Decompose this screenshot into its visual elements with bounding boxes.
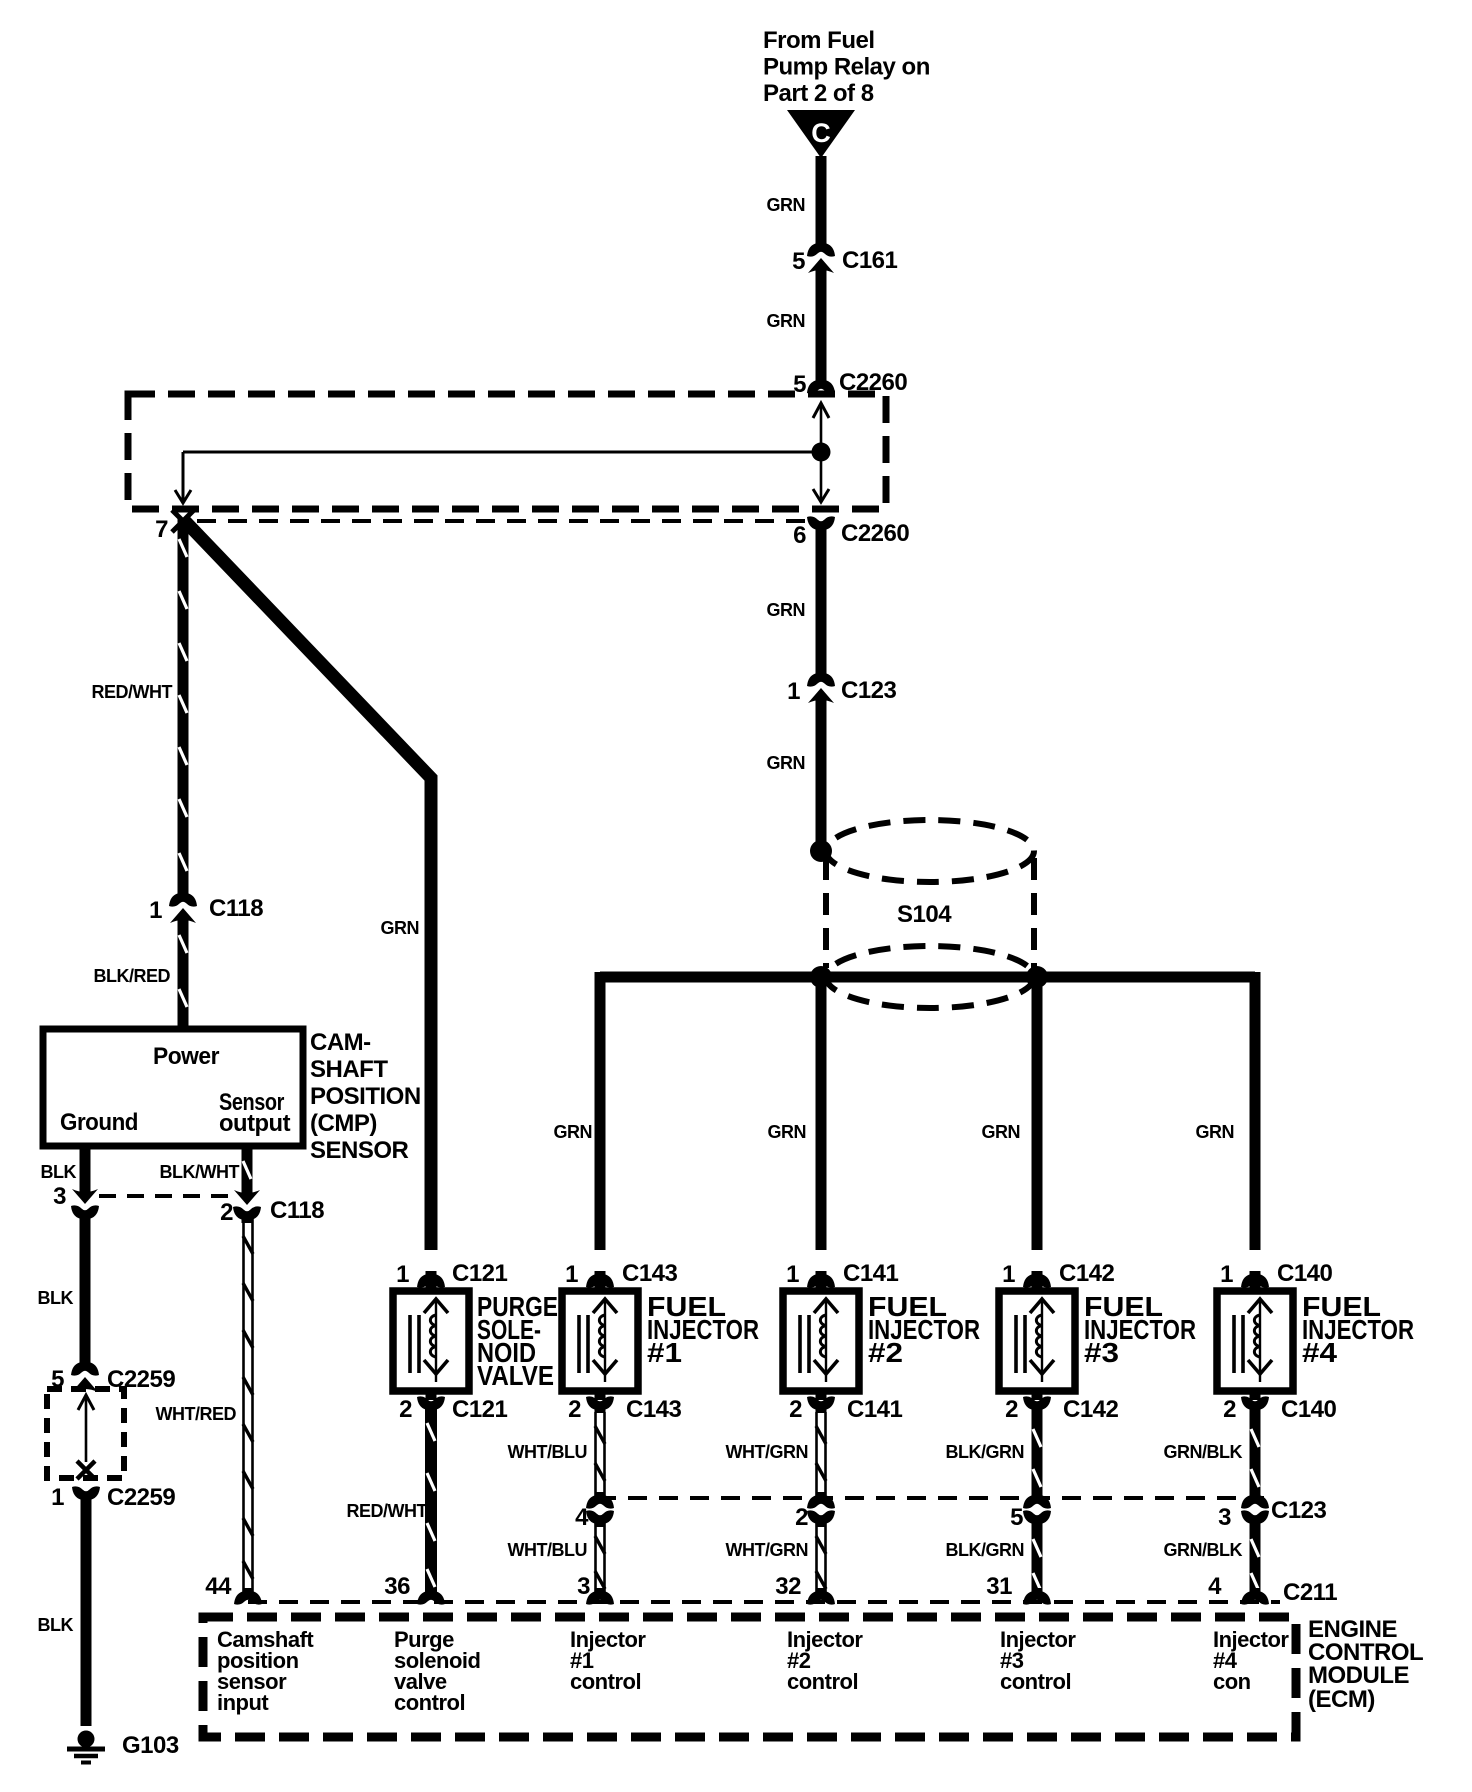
label GRN [767, 753, 806, 773]
svg-text:44: 44 [205, 1573, 232, 1600]
svg-text:5: 5 [793, 371, 806, 398]
wire GRN/BLK lower segment [1251, 1520, 1259, 1594]
svg-text:C143: C143 [626, 1396, 682, 1423]
wire GRN diagonal to purge solenoid [183, 519, 431, 1250]
connector C2260 pin 6 fishtail [807, 516, 835, 533]
label Injector #4 control [1213, 1627, 1289, 1694]
label GRN injector 2 [768, 1122, 807, 1142]
wire GRN drop to injector 3 [1032, 977, 1043, 1250]
pin number 32 [775, 1573, 801, 1600]
svg-text:input: input [217, 1690, 269, 1715]
svg-text:6: 6 [793, 522, 806, 549]
svg-text:3: 3 [577, 1573, 590, 1600]
connector C143 pin 2 fishtail [586, 1391, 614, 1413]
connector C141 pin 2 fishtail [807, 1391, 835, 1413]
wire BLK down to C2259 [80, 1214, 91, 1368]
pin number 1 and connector name C140 [1220, 1260, 1332, 1288]
splice junction dot top [810, 840, 832, 862]
svg-text:2: 2 [220, 1199, 233, 1226]
svg-text:Part 2 of 8: Part 2 of 8 [763, 80, 874, 107]
connector C123 pin 3 [1241, 1492, 1269, 1527]
label GRN purge [381, 918, 420, 938]
svg-text:BLK/GRN: BLK/GRN [946, 1442, 1025, 1462]
label GRN [767, 311, 806, 331]
svg-text:5: 5 [1010, 1504, 1023, 1531]
svg-text:#1: #1 [647, 1337, 682, 1368]
label Injector #1 control [570, 1627, 646, 1694]
internal arrow up at pin 5 [813, 403, 829, 452]
connector C2260 pin 5 fishtail [807, 377, 835, 394]
camshaft position sensor box [43, 1029, 303, 1146]
fuel injector #2 box [783, 1291, 859, 1391]
svg-text:(ECM): (ECM) [1308, 1686, 1375, 1713]
note: From Fuel Pump Relay [763, 27, 930, 107]
svg-text:C140: C140 [1277, 1260, 1333, 1287]
pin number 3 [53, 1183, 66, 1210]
dashed link pin 7 to pin 6 [197, 519, 806, 523]
connector C2259 pin 1 fishtail [72, 1486, 100, 1503]
wire GRN from relay triangle to C161 [816, 156, 827, 248]
connector C2259 pin 5 [71, 1359, 99, 1392]
wire GRN drop to injector 4 [1250, 972, 1261, 1250]
label BLK [38, 1615, 74, 1635]
pin number 1 and connector name C141 [786, 1260, 898, 1288]
pin number 5 and connector name C2259 [51, 1366, 175, 1393]
connector C161 pin 5 [807, 240, 835, 273]
pin number 44 [205, 1573, 232, 1600]
svg-text:1: 1 [787, 678, 800, 705]
svg-text:GRN/BLK: GRN/BLK [1164, 1442, 1243, 1462]
label G103 [122, 1732, 179, 1759]
svg-text:C161: C161 [842, 247, 898, 274]
purge solenoid valve box [393, 1291, 469, 1391]
svg-text:7: 7 [155, 516, 168, 543]
svg-text:3: 3 [1218, 1504, 1231, 1531]
svg-text:2: 2 [1223, 1396, 1236, 1423]
svg-text:#2: #2 [868, 1337, 903, 1368]
svg-text:C2259: C2259 [107, 1484, 175, 1511]
svg-text:BLK/GRN: BLK/GRN [946, 1540, 1025, 1560]
connector name C211 [1283, 1579, 1337, 1606]
wire WHT/GRN lower segment [816, 1522, 826, 1594]
label WHT/RED [156, 1404, 237, 1424]
svg-text:BLK/WHT: BLK/WHT [160, 1162, 240, 1182]
wire GRN drop to injector 2 [816, 977, 827, 1250]
connector C142 pin 2 fishtail [1023, 1391, 1051, 1413]
svg-text:con: con [1213, 1669, 1251, 1694]
svg-text:output: output [219, 1110, 291, 1137]
svg-text:3: 3 [53, 1183, 66, 1210]
dashed connector block C2260 [128, 394, 886, 509]
wire BLK/GRN upper segment [1033, 1410, 1041, 1496]
connector C123 pin 5 [1023, 1492, 1051, 1527]
pin number 4 [1208, 1573, 1222, 1600]
pin number 2 and connector name C142 [1005, 1396, 1118, 1423]
label Ground [60, 1109, 138, 1136]
label BLK [41, 1162, 77, 1182]
svg-text:G103: G103 [122, 1732, 179, 1759]
connector C140 pin 1 fishtail [1241, 1271, 1269, 1291]
connector C123 pin 4 [586, 1492, 614, 1527]
svg-text:WHT/BLU: WHT/BLU [508, 1442, 587, 1462]
svg-text:Power: Power [153, 1043, 219, 1070]
ECM pin flare at x=431 [417, 1588, 445, 1605]
svg-text:2: 2 [568, 1396, 581, 1423]
wire GRN distribution bus [600, 972, 1255, 983]
label Sensor output [219, 1089, 291, 1137]
ECM pin flare at x=248 [234, 1588, 262, 1605]
label Power [153, 1043, 219, 1070]
ECM pin flare at x=1037 [1023, 1588, 1051, 1605]
label GRN injector 4 [1196, 1122, 1235, 1142]
svg-text:31: 31 [986, 1573, 1012, 1600]
svg-text:VALVE: VALVE [477, 1360, 554, 1391]
pin number 2 and connector name C143 [568, 1396, 681, 1423]
label BLK/GRN [946, 1442, 1025, 1462]
pin number 1 and connector name C123 [787, 677, 896, 705]
label WHT/GRN [726, 1540, 808, 1560]
wire BLK/RED to CMP sensor [179, 918, 187, 1032]
svg-text:RED/WHT: RED/WHT [347, 1501, 428, 1521]
wire BLK to ground [81, 1498, 92, 1726]
pin number 3 [1218, 1504, 1231, 1531]
svg-text:2: 2 [399, 1396, 412, 1423]
svg-text:1: 1 [1002, 1261, 1015, 1288]
wire GRN/BLK upper segment [1251, 1410, 1259, 1496]
label GRN injector 1 [554, 1122, 593, 1142]
connector name C123 [1271, 1497, 1327, 1524]
svg-text:4: 4 [575, 1504, 589, 1531]
connector C143 pin 1 fishtail [586, 1271, 614, 1291]
pin number 31 [986, 1573, 1012, 1600]
svg-text:WHT/GRN: WHT/GRN [726, 1540, 808, 1560]
fuel injector #1 box [562, 1291, 638, 1391]
internal arrow down to pin 7 [175, 490, 191, 503]
svg-text:C118: C118 [209, 895, 263, 922]
label PURGE SOLENOID VALVE [477, 1291, 558, 1391]
label CAMSHAFT POSITION (CMP) SENSOR [310, 1029, 421, 1164]
pin number 5 [1010, 1504, 1023, 1531]
pin number 3 [577, 1573, 590, 1600]
pin number 2 and connector name C121 [399, 1396, 507, 1423]
wire WHT/GRN upper segment [816, 1412, 826, 1496]
pin number 6 and connector name C2260 [793, 520, 909, 549]
engine control module dashed box [203, 1617, 1296, 1737]
connector pin x C2259 [77, 1461, 95, 1479]
wire RED/WHT pin7 down [179, 519, 187, 898]
svg-text:control: control [1000, 1669, 1071, 1694]
svg-text:GRN: GRN [767, 753, 806, 773]
splice S104 dashed cylinder [826, 820, 1034, 1008]
label BLK/RED [94, 966, 171, 986]
label ENGINE CONTROL MODULE (ECM) [1308, 1616, 1423, 1713]
svg-text:GRN: GRN [767, 195, 806, 215]
svg-text:1: 1 [1220, 1261, 1233, 1288]
svg-text:GRN: GRN [982, 1122, 1021, 1142]
label GRN/BLK [1164, 1540, 1243, 1560]
dashed connector line C211 [248, 1600, 1280, 1604]
svg-text:4: 4 [1208, 1573, 1222, 1600]
label WHT/BLU [508, 1442, 587, 1462]
svg-text:2: 2 [789, 1396, 802, 1423]
connector pin 7 (x) [172, 510, 194, 532]
svg-text:SHAFT: SHAFT [310, 1056, 388, 1083]
svg-text:BLK/RED: BLK/RED [94, 966, 171, 986]
connector C123 pin 1 [807, 670, 835, 703]
dashed connector line C123 [597, 1496, 1264, 1500]
wire BLK/GRN lower segment [1033, 1520, 1041, 1594]
pin number 2 and connector name C141 [789, 1396, 902, 1423]
connector C141 pin 1 fishtail [807, 1271, 835, 1291]
svg-text:Pump Relay on: Pump Relay on [763, 54, 930, 81]
connector C118 pin 1 [169, 890, 197, 923]
svg-text:C211: C211 [1283, 1579, 1337, 1606]
svg-text:WHT/BLU: WHT/BLU [508, 1540, 587, 1560]
pin number 5 and connector name C2260 [793, 369, 907, 398]
wire GRN C2260 to C123 [816, 528, 827, 677]
svg-text:GRN/BLK: GRN/BLK [1164, 1540, 1243, 1560]
svg-text:POSITION: POSITION [310, 1083, 421, 1110]
ground G103 [67, 1731, 105, 1763]
label Injector #2 control [787, 1627, 863, 1694]
svg-text:WHT/GRN: WHT/GRN [726, 1442, 808, 1462]
svg-text:C2260: C2260 [841, 520, 909, 547]
label GRN [767, 195, 806, 215]
internal arrow C2259 [78, 1395, 94, 1462]
svg-text:C123: C123 [1271, 1497, 1327, 1524]
label FUEL INJECTOR #4 [1302, 1291, 1414, 1368]
pin number 4 [575, 1504, 589, 1531]
label BLK [38, 1288, 74, 1308]
connector C123 pin 2 [807, 1492, 835, 1527]
label FUEL INJECTOR #2 [868, 1291, 980, 1368]
svg-text:Ground: Ground [60, 1109, 138, 1136]
svg-text:BLK: BLK [38, 1288, 74, 1308]
svg-text:GRN: GRN [768, 1122, 807, 1142]
label WHT/GRN [726, 1442, 808, 1462]
label GRN [767, 600, 806, 620]
dashed link pin3 pin2 [99, 1194, 232, 1198]
svg-text:C143: C143 [622, 1260, 678, 1287]
connector C121 pin 1 fishtail [417, 1271, 445, 1291]
pin number 1 and connector name C2259 [51, 1484, 175, 1511]
splice junction dot left [810, 966, 832, 988]
label RED/WHT [92, 682, 173, 702]
svg-text:#3: #3 [1084, 1337, 1119, 1368]
svg-text:RED/WHT: RED/WHT [92, 682, 173, 702]
svg-text:GRN: GRN [767, 311, 806, 331]
svg-text:control: control [570, 1669, 641, 1694]
label FUEL INJECTOR #1 [647, 1291, 759, 1368]
svg-text:C123: C123 [841, 677, 897, 704]
wire RED/WHT purge to ECM [427, 1408, 435, 1594]
splice junction dot right [1026, 966, 1048, 988]
ECM pin flare at x=1255 [1241, 1588, 1269, 1605]
svg-text:36: 36 [384, 1573, 410, 1600]
svg-text:1: 1 [149, 897, 162, 924]
svg-text:C140: C140 [1281, 1396, 1337, 1423]
connector C142 pin 1 fishtail [1023, 1271, 1051, 1291]
pin number 1 and connector name C118 [149, 895, 263, 924]
svg-text:control: control [787, 1669, 858, 1694]
connector C140 pin 2 fishtail [1241, 1391, 1269, 1413]
svg-text:MODULE: MODULE [1308, 1662, 1409, 1689]
svg-text:C: C [811, 118, 831, 148]
svg-text:C121: C121 [452, 1396, 508, 1423]
svg-text:(CMP): (CMP) [310, 1110, 377, 1137]
connector pin 3 [71, 1189, 99, 1222]
wire WHT/RED to ECM [243, 1215, 253, 1594]
svg-text:C141: C141 [843, 1260, 899, 1287]
label WHT/BLU [508, 1540, 587, 1560]
svg-text:C118: C118 [270, 1197, 324, 1224]
wire GRN C161 to C2260 [816, 268, 827, 378]
off-page connector C (triangle) [787, 110, 855, 158]
ECM pin flare at x=821 [807, 1588, 835, 1605]
label GRN injector 3 [982, 1122, 1021, 1142]
svg-text:1: 1 [565, 1261, 578, 1288]
pin number 7 [155, 516, 168, 543]
internal arrow down to pin 6 [813, 452, 829, 502]
svg-text:32: 32 [775, 1573, 801, 1600]
wire BLK/WHT sensor output pin [243, 1146, 251, 1197]
svg-text:GRN: GRN [554, 1122, 593, 1142]
svg-text:C142: C142 [1063, 1396, 1119, 1423]
fuel injector #3 box [999, 1291, 1075, 1391]
svg-text:BLK: BLK [41, 1162, 77, 1182]
pin number 5 and connector name C161 [792, 247, 897, 275]
label RED/WHT [347, 1501, 428, 1521]
svg-text:SENSOR: SENSOR [310, 1137, 409, 1164]
pin number 36 [384, 1573, 410, 1600]
pin number 1 and connector name C143 [565, 1260, 677, 1288]
internal bus line [183, 452, 821, 500]
svg-text:WHT/RED: WHT/RED [156, 1404, 237, 1424]
svg-text:2: 2 [795, 1504, 808, 1531]
svg-text:C142: C142 [1059, 1260, 1115, 1287]
label Purge solenoid valve control [394, 1627, 480, 1715]
connector C118 pin 2 [233, 1190, 261, 1223]
pin number 2 and connector name C140 [1223, 1396, 1336, 1423]
label Injector #3 control [1000, 1627, 1076, 1694]
wire WHT/BLU lower segment [595, 1522, 605, 1594]
pin number 1 and connector name C121 [396, 1260, 507, 1288]
svg-text:BLK: BLK [38, 1615, 74, 1635]
svg-text:1: 1 [396, 1261, 409, 1288]
label S104 [897, 901, 952, 928]
label BLK/WHT [160, 1162, 240, 1182]
label BLK/GRN [946, 1540, 1025, 1560]
pin number 2 [795, 1504, 808, 1531]
svg-text:C141: C141 [847, 1396, 903, 1423]
svg-text:1: 1 [786, 1261, 799, 1288]
svg-text:#4: #4 [1302, 1337, 1337, 1368]
svg-text:S104: S104 [897, 901, 952, 928]
wire GRN C123 to splice S104 [816, 698, 827, 853]
svg-text:2: 2 [1005, 1396, 1018, 1423]
dashed connector block C2259 [47, 1389, 124, 1478]
svg-text:From Fuel: From Fuel [763, 27, 875, 54]
svg-text:5: 5 [792, 248, 805, 275]
label Camshaft position sensor input [217, 1627, 314, 1715]
svg-text:GRN: GRN [1196, 1122, 1235, 1142]
fuel injector #4 box [1217, 1291, 1293, 1391]
junction dot [812, 443, 831, 462]
svg-text:CAM-: CAM- [310, 1029, 371, 1056]
svg-text:GRN: GRN [381, 918, 420, 938]
svg-text:C121: C121 [452, 1260, 508, 1287]
pin number 1 and connector name C142 [1002, 1260, 1114, 1288]
connector C121 pin 2 fishtail [417, 1391, 445, 1413]
pin number 2 and connector name C118 [220, 1197, 324, 1226]
svg-text:1: 1 [51, 1484, 64, 1511]
wire WHT/BLU upper segment [595, 1412, 605, 1496]
label GRN/BLK [1164, 1442, 1243, 1462]
label FUEL INJECTOR #3 [1084, 1291, 1196, 1368]
ECM pin flare at x=600 [586, 1588, 614, 1605]
svg-text:C2259: C2259 [107, 1366, 175, 1393]
svg-text:GRN: GRN [767, 600, 806, 620]
wire GRN drop to injector 1 [595, 972, 606, 1250]
wire BLK ground pin [80, 1146, 91, 1196]
svg-text:control: control [394, 1690, 465, 1715]
